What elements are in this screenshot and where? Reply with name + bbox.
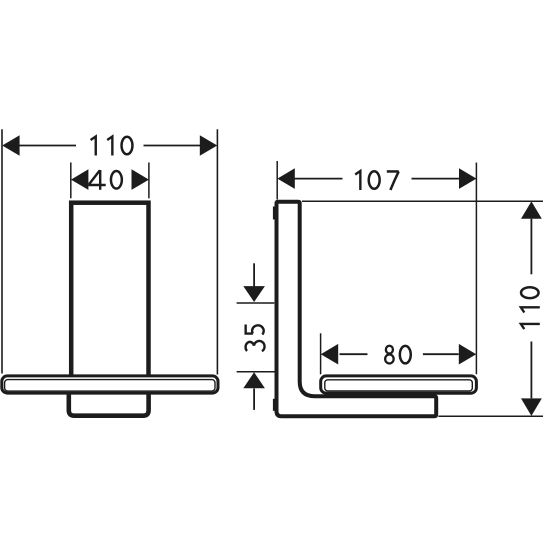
shelf side outer	[321, 376, 477, 393]
dim 80	[321, 333, 477, 374]
dim 110 left view	[2, 129, 217, 374]
RIGHT VIEW (side, L-profile)	[277, 202, 437, 417]
wall plate front	[71, 203, 148, 383]
dim 110 right view (vertical)	[302, 201, 543, 416]
small lug bottom on wall plate edge	[273, 399, 275, 411]
dim 107	[277, 161, 476, 374]
dim 35 (vertical, arrows outside)	[237, 263, 276, 410]
shelf front outer	[2, 376, 218, 393]
bracket below shelf (front)	[69, 384, 149, 416]
small lug top on wall plate edge	[273, 207, 275, 220]
dim 40 left view	[71, 163, 149, 199]
